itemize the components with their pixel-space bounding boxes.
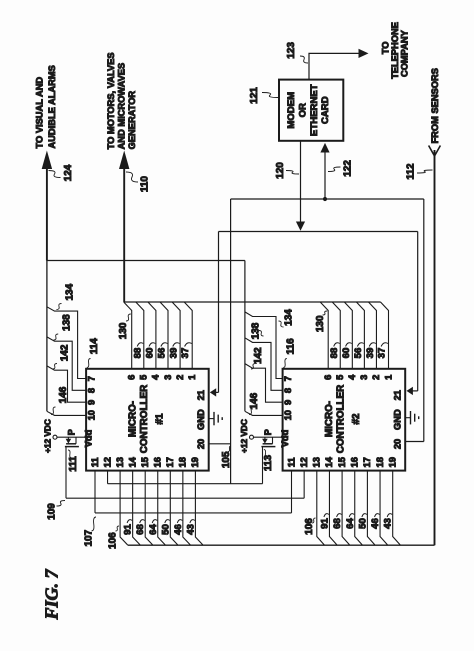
svg-text:+12 VDC: +12 VDC [239,419,249,453]
lead 109 [57,501,66,507]
lead 114 [87,359,91,368]
arrowhead into pin 21 #2 [407,387,413,395]
transistor Q1 (P-MOSFET, +12VDC switch for U1) [53,435,57,439]
svg-text:88: 88 [133,347,144,358]
sensor bus (bottom horizontal) [128,544,435,546]
svg-text:146: 146 [58,386,69,403]
svg-text:17: 17 [165,457,175,467]
svg-text:113: 113 [263,454,274,471]
svg-text:20: 20 [393,439,403,449]
svg-text:105: 105 [221,451,232,468]
svg-text:134: 134 [65,283,76,300]
svg-text:134: 134 [284,309,295,326]
svg-text:46: 46 [173,524,184,535]
svg-text:CONTROLLER: CONTROLLER [139,385,150,454]
lead 138 #2 [259,331,264,337]
svg-text:11: 11 [286,457,296,467]
lead line 130 #2 [323,311,328,315]
bus at y231 (modem output bus) [219,231,418,233]
wire 120 modem output [300,141,302,222]
svg-text:12: 12 [102,457,112,467]
arrowhead of alarm line [42,151,52,170]
svg-text:1: 1 [383,375,393,380]
hook 50 (U1 cascade) [165,520,170,523]
svg-text:46: 46 [370,518,381,529]
U2 pin 14 wire to sensor bus [329,471,337,546]
lead line for 122 [328,167,341,172]
arrowhead into pin 21 #1 [210,388,216,396]
wire 138 to pin 8 of U2 [245,338,283,391]
svg-text:MICRO-: MICRO- [324,401,335,437]
svg-text:64: 64 [345,518,356,529]
riser pin21 #2 [417,232,419,391]
svg-text:9: 9 [86,400,96,405]
svg-text:19: 19 [388,457,398,467]
wire 124 to visual and audible alarms (vertical line) [46,168,48,261]
pin 20 wire #2 [405,441,424,443]
svg-text:110: 110 [140,176,151,193]
svg-text:68: 68 [332,518,343,529]
svg-text:15: 15 [140,457,150,467]
svg-text:2: 2 [371,375,381,380]
pin 21 wire #2 [412,390,418,392]
lead line for 110 [126,172,138,182]
svg-text:GND: GND [196,409,206,430]
svg-text:39: 39 [365,348,376,359]
lead 106 #1 [116,526,120,531]
U2 pin 16 wire to sensor bus [355,471,363,546]
U1 pin 14 wire to sensor bus [133,471,141,546]
svg-text:39: 39 [168,348,179,359]
lead line 130 #1 [126,314,131,321]
svg-text:37: 37 [180,348,191,359]
svg-text:6: 6 [323,375,333,380]
svg-text:56: 56 [353,348,364,359]
svg-text:107: 107 [84,529,95,546]
wire to pin 3 of U1 [160,302,168,369]
wire 134 to pin 7 of U2 [245,312,283,379]
hook 43 (U1 cascade) [190,520,195,523]
svg-text:P: P [263,429,273,435]
U1 GND wire [209,418,214,420]
lead 142 #1 [53,364,58,370]
pin 20 wire #1 [209,443,231,445]
lead 105 [228,446,231,452]
U1 pin 18 wire to sensor bus [183,471,191,546]
svg-text:64: 64 [148,524,159,535]
svg-text:91: 91 [319,518,330,529]
hook 50 (U2 cascade) [362,514,367,517]
hook 56 (U1) [161,343,168,347]
wire 122 modem input [324,152,326,199]
hook 88 (U2) [334,343,340,347]
svg-text:11: 11 [90,457,100,467]
open arrowhead from sensors [429,146,441,157]
hook 60 (U2) [346,343,352,347]
wire to pin 1 of U2 [381,302,389,369]
svg-text:130: 130 [315,315,326,332]
svg-text:8: 8 [283,388,293,393]
lead 116 [283,359,287,368]
motors bus horizontal [124,301,380,303]
svg-text:#1: #1 [154,413,165,424]
svg-text:122: 122 [343,160,354,177]
svg-text:124: 124 [63,164,74,181]
lead 146 #2 [249,407,254,415]
svg-text:10: 10 [86,410,96,420]
svg-text:ETHERNET: ETHERNET [309,84,320,136]
svg-text:5: 5 [335,375,345,380]
bus 483 (U1 pin12 - Q2 gate) [107,471,109,484]
riser pin20 #1 [230,199,232,484]
lead 106 #2 [312,518,316,523]
lead 138 #1 [54,334,59,340]
svg-text:138: 138 [61,314,72,331]
micro-controller U1 box [86,369,209,471]
alarm feed drop to micro #2 group [244,261,246,412]
svg-text:112: 112 [406,163,417,180]
svg-text:AND MICROWAVES: AND MICROWAVES [116,63,126,150]
svg-text:142: 142 [60,344,71,361]
hook 39 (U2) [369,343,376,347]
svg-text:+12 VDC: +12 VDC [42,419,52,453]
svg-text:14: 14 [127,456,137,467]
svg-text:7: 7 [86,376,96,381]
gate wire of Q2 [262,447,264,484]
lead 134 #2 [279,321,284,327]
svg-text:18: 18 [178,457,188,467]
lead line for 120 [286,171,299,175]
hook 64 (U2 cascade) [349,514,354,517]
svg-text:50: 50 [357,518,368,529]
modem box U3 [279,80,343,141]
svg-text:4: 4 [347,374,357,380]
svg-text:20: 20 [196,439,206,449]
svg-text:CARD: CARD [320,96,331,124]
svg-text:MICRO-: MICRO- [127,401,138,437]
svg-text:114: 114 [89,338,100,355]
U1 pin 16 wire to sensor bus [158,471,166,546]
arrowhead of motors line [119,151,129,170]
ground symbol U2 [410,411,412,424]
wire 134 to pin 7 of U1 [47,307,86,379]
svg-text:5: 5 [139,375,149,380]
hook 60 (U1) [149,343,155,347]
lead 134 #1 [57,304,62,310]
svg-text:91: 91 [123,524,134,535]
svg-text:109: 109 [47,503,58,520]
lead 107 [92,517,97,531]
svg-text:16: 16 [153,457,163,467]
svg-text:10: 10 [283,410,293,420]
lead line for 124 [49,171,61,178]
svg-text:13: 13 [312,457,322,467]
svg-text:60: 60 [145,348,156,359]
wire to pin 4 of U1 [148,302,156,369]
wire to pin 3 of U2 [356,302,364,369]
svg-text:TELEPHONE: TELEPHONE [390,22,400,79]
svg-text:15: 15 [337,457,347,467]
svg-text:68: 68 [135,524,146,535]
svg-text:106: 106 [108,532,119,549]
svg-text:123: 123 [286,42,297,59]
svg-text:#2: #2 [351,413,362,424]
svg-text:13: 13 [115,457,125,467]
svg-text:17: 17 [362,457,372,467]
svg-text:130: 130 [118,322,129,339]
svg-text:121: 121 [249,87,260,104]
hook 43 (U2 cascade) [387,514,392,517]
svg-text:FIG. 7: FIG. 7 [42,568,62,620]
wire to pin 2 of U1 [172,302,180,369]
U2 pin 15 wire to sensor bus [342,471,350,546]
U1 pin 17 wire to sensor bus [170,471,178,546]
U2 pin 18 wire to sensor bus [380,471,388,546]
wire to pin 2 of U2 [368,302,376,369]
arrowhead to telephone company [359,49,369,58]
wire 110 to motors valves and microwaves generator [123,168,125,302]
riser pin20 #2 [423,199,425,442]
svg-text:GND: GND [393,409,403,430]
riser pin21 #1 [218,232,220,393]
alarm bus horizontal [47,260,245,262]
svg-text:60: 60 [341,348,352,359]
transistor Q2 (P-MOSFET, +12VDC switch for U2) [250,435,254,439]
svg-text:3: 3 [359,375,369,380]
hook 39 (U1) [173,343,180,347]
wire to pin 1 of U1 [184,302,192,369]
svg-text:1: 1 [187,375,197,380]
U2 GND wire [405,417,410,419]
U2 pin 17 wire to sensor bus [367,471,375,546]
svg-text:12: 12 [299,457,309,467]
svg-text:TO VISUAL AND: TO VISUAL AND [34,77,44,149]
hook 46 (U1 cascade) [177,520,182,523]
junction dot on bus 199 [323,197,327,201]
svg-text:120: 120 [275,162,286,179]
wire to pin 4 of U2 [344,302,352,369]
svg-text:P: P [66,429,76,435]
svg-text:50: 50 [160,524,171,535]
hook 37 (U1) [185,343,192,347]
svg-text:4: 4 [151,374,161,380]
svg-text:19: 19 [190,457,200,467]
svg-text:Vdd: Vdd [84,429,94,447]
svg-text:43: 43 [185,524,196,535]
svg-text:6: 6 [127,375,137,380]
bus at y199 (modem input bus) [231,198,424,200]
svg-text:14: 14 [324,456,334,467]
svg-text:CONTROLLER: CONTROLLER [336,385,347,454]
svg-text:111: 111 [68,456,79,472]
U1 pin 15 wire to sensor bus [145,471,153,546]
lead line for 123 [300,56,308,63]
arrowhead of wire 122 [320,143,329,153]
svg-text:COMPANY: COMPANY [400,29,410,77]
micro-controller U2 box [283,369,406,471]
U2 pin 13 wire to sensor bus [317,471,325,546]
wire 138 to pin 8 of U1 [47,337,86,390]
hook 64 (U1 cascade) [152,520,157,523]
svg-text:116: 116 [285,338,296,355]
svg-text:TO: TO [380,41,390,54]
wire 142 to pin 9 of U2 [245,364,283,403]
hook 91 (U1 cascade) [127,520,132,523]
wire to pin 6 of U1 [124,302,132,369]
alarm riser lower segment feeding U1 pins 7-10 [46,261,48,412]
lead 146 #1 [51,407,56,415]
lead 113 [264,450,267,458]
svg-text:TO MOTORS, VALVES: TO MOTORS, VALVES [106,52,116,149]
U1 pin 13 wire to sensor bus [120,471,128,546]
ground symbol U1 [213,412,215,425]
pin 21 wire #1 [215,391,219,393]
svg-text:56: 56 [156,348,167,359]
svg-text:GENERATOR: GENERATOR [127,91,137,150]
U2 pin 19 wire to sensor bus [393,471,401,546]
bus 109 at y498 [66,497,304,499]
svg-text:88: 88 [329,347,340,358]
svg-text:43: 43 [383,518,394,529]
hook 68 (U2 cascade) [337,514,342,517]
svg-text:FROM SENSORS: FROM SENSORS [430,68,440,143]
bus 107 at y513 (U1 pin11 - U2 pin11) [94,471,96,513]
svg-text:8: 8 [86,388,96,393]
U1 pin 19 wire to sensor bus [195,471,203,546]
U2 pin 12 wire drop [303,471,305,499]
svg-text:2: 2 [175,375,185,380]
svg-text:9: 9 [283,400,293,405]
svg-text:AUDIBLE ALARMS: AUDIBLE ALARMS [47,65,57,148]
gate wire of Q1 (start of bus 109) [65,447,67,499]
svg-text:16: 16 [350,457,360,467]
arrowhead of wire 120 [296,222,305,231]
svg-text:OR: OR [297,103,308,117]
wire to pin 5 of U1 [136,302,144,369]
wire 112 from sensors (vertical line) [434,150,436,545]
svg-text:21: 21 [196,390,206,400]
lead line for 112 [417,170,433,173]
hook 91 (U2 cascade) [324,514,329,517]
hook 37 (U2) [381,343,388,347]
wire to pin 5 of U2 [332,302,340,369]
svg-text:18: 18 [375,457,385,467]
svg-text:21: 21 [393,390,403,400]
hook 88 (U1) [137,343,143,347]
lead 111 [68,450,72,458]
hook 46 (U2 cascade) [375,514,380,517]
svg-text:7: 7 [283,376,293,381]
svg-text:142: 142 [253,347,264,364]
wire 146 to pin 10 of U1 [47,411,86,415]
wire 146 to pin 10 of U2 [245,411,283,415]
lead line for 121 [262,93,278,98]
svg-text:Vdd: Vdd [280,429,290,447]
wire 142 to pin 9 of U1 [47,366,86,402]
svg-text:146: 146 [249,392,260,409]
wire to pin 6 of U2 [320,302,328,369]
svg-text:3: 3 [163,375,173,380]
hook 56 (U2) [357,343,363,347]
svg-text:MODEM: MODEM [286,92,297,129]
hook 68 (U1 cascade) [140,520,145,523]
svg-text:37: 37 [377,348,388,359]
wire 123 modem to telephone [309,53,359,79]
lead 142 #2 [251,364,255,369]
